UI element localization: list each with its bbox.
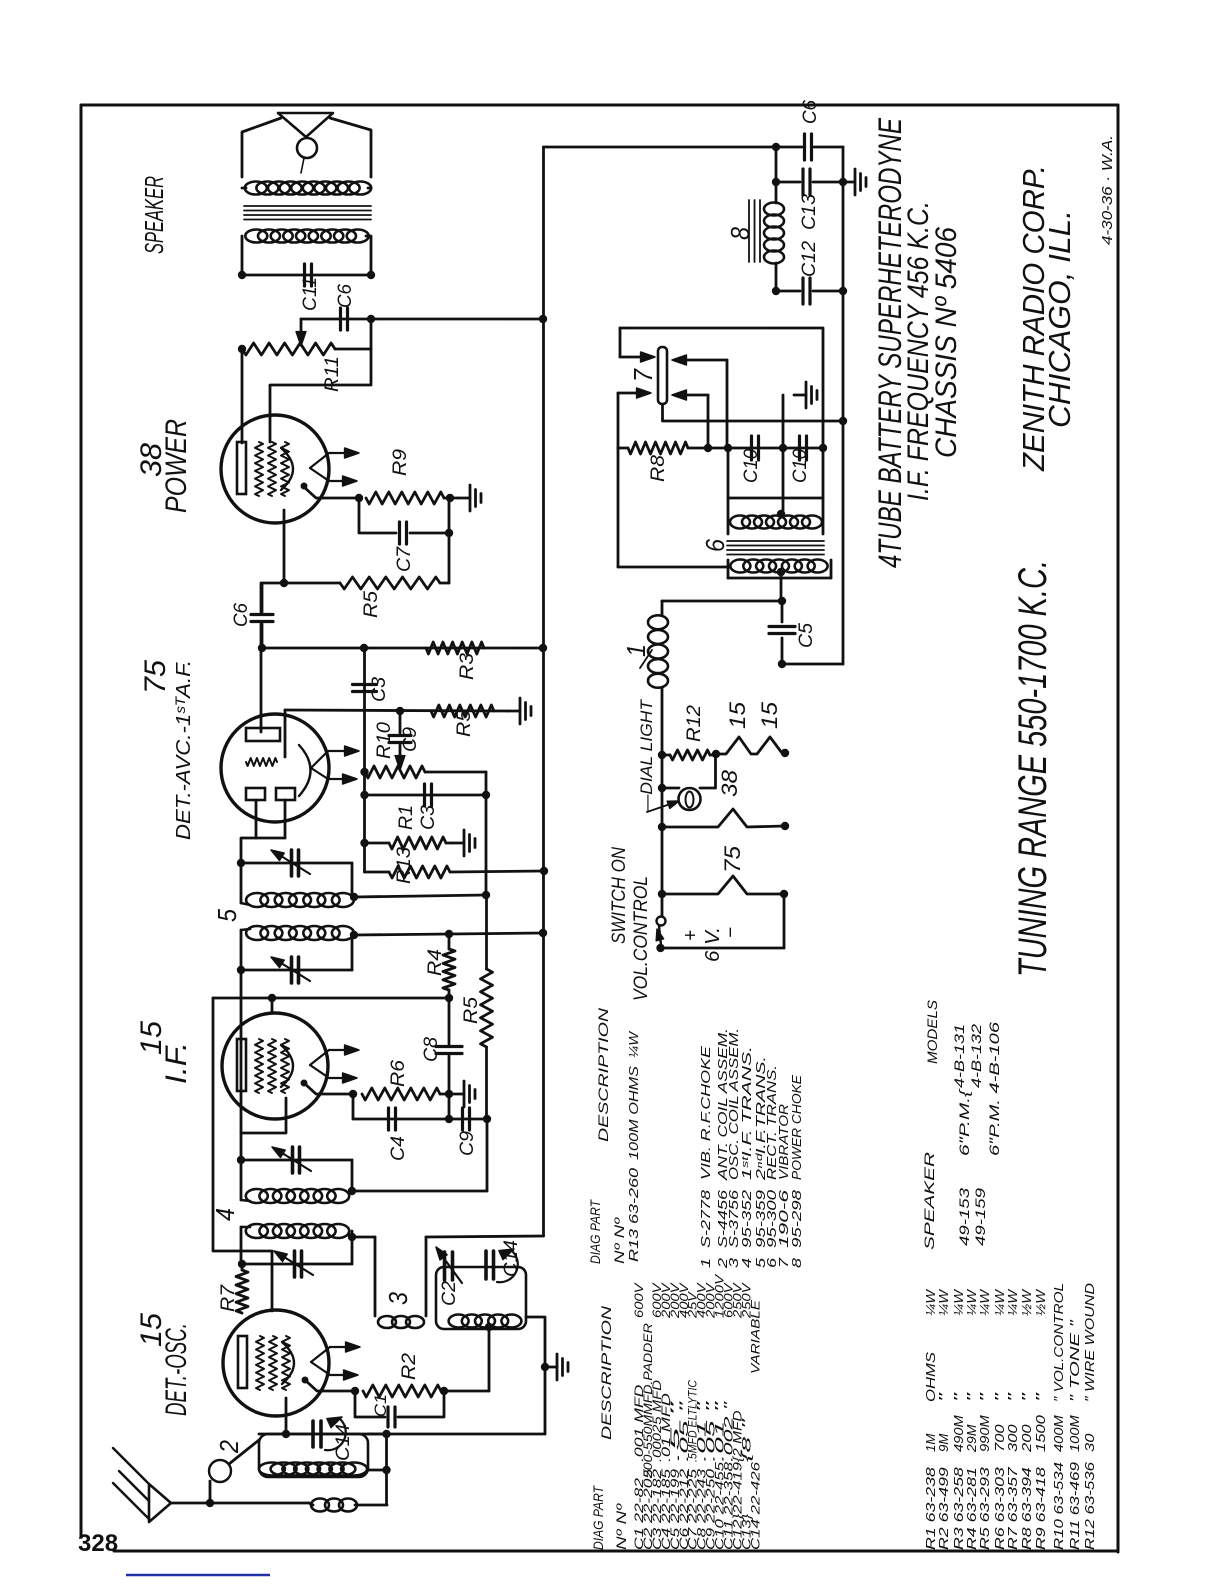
svg-text:C3: C3 <box>418 805 439 830</box>
capacitor C3 detector <box>365 794 487 797</box>
svg-text:7: 7 <box>628 368 658 382</box>
svg-text:C8: C8 <box>421 1037 442 1062</box>
antenna coil primary small <box>311 1499 329 1512</box>
wire speaker cone to transformer <box>330 118 371 177</box>
svg-text:990M: 990M <box>977 1415 992 1452</box>
svg-text:R7 63-357: R7 63-357 <box>1005 1466 1020 1550</box>
svg-text:SPEAKER: SPEAKER <box>139 176 169 254</box>
buffer capacitor row C10 C10 <box>708 447 823 450</box>
speaker transformer primary coil <box>245 230 267 243</box>
capacitor C13 <box>775 147 778 182</box>
vibrator contact wires right <box>679 359 727 362</box>
resistor R1 <box>389 837 446 849</box>
avc line down left side <box>213 998 272 1311</box>
capacitor C11 <box>242 274 371 277</box>
resistor R2 <box>363 1385 441 1397</box>
svg-text:−: − <box>720 927 742 938</box>
capacitor C8 <box>436 1045 462 1048</box>
capacitor C3 coupling <box>353 683 377 686</box>
svg-text:R8 63-394: R8 63-394 <box>1019 1467 1034 1550</box>
speaker transformer core <box>244 205 371 207</box>
svg-text:+: + <box>680 930 702 941</box>
svg-text:CHICAGO, ILL.: CHICAGO, ILL. <box>1042 210 1077 428</box>
svg-text:38: 38 <box>717 769 742 797</box>
svg-text:2: 2 <box>214 1440 244 1454</box>
svg-text:″ VOL.CONTROL: ″ VOL.CONTROL <box>1051 1283 1066 1402</box>
potentiometer R11 tone control <box>300 319 303 337</box>
capacitor C6 screen bypass <box>262 583 284 612</box>
svg-text:″: ″ <box>1033 1392 1048 1402</box>
svg-text:3: 3 <box>383 1292 413 1305</box>
wire 75 diode pins to transformer 5 <box>241 800 256 863</box>
svg-text:DET.-OSC.: DET.-OSC. <box>160 1323 193 1416</box>
svg-text:R2: R2 <box>399 1353 420 1380</box>
svg-text:R8: R8 <box>648 455 669 482</box>
speaker transformer secondary coil <box>245 182 267 195</box>
svg-text:C4: C4 <box>388 1136 409 1161</box>
IF transformer 4 secondary <box>246 1189 268 1203</box>
filament 15 15 <box>716 737 785 754</box>
svg-text:R5 63-293: R5 63-293 <box>977 1466 992 1550</box>
potentiometer R10 volume control <box>365 766 425 778</box>
IF transformer 4 tuned cap top <box>241 1159 352 1162</box>
svg-text:C14: C14 <box>333 1424 354 1461</box>
wire plate of 75 up through C6 node <box>260 583 263 612</box>
svg-text:″ WIRE WOUND: ″ WIRE WOUND <box>1082 1283 1097 1402</box>
svg-text:6″P.M. 4-B-106: 6″P.M. 4-B-106 <box>987 1021 1002 1156</box>
svg-text:POWER CHOKE: POWER CHOKE <box>789 1075 804 1180</box>
ground vibrator <box>794 394 806 397</box>
svg-text:R11: R11 <box>322 356 343 392</box>
border frame right edge <box>1117 105 1120 1552</box>
capacitor C6 top filter <box>803 134 806 160</box>
svg-text:100M OHMS: 100M OHMS <box>626 1066 641 1160</box>
svg-text:DESCRIPTION: DESCRIPTION <box>598 1305 614 1440</box>
svg-text:R4: R4 <box>425 949 446 976</box>
IF transformer 5 tuned cap top <box>241 862 352 865</box>
svg-text:—DIAL LIGHT: —DIAL LIGHT <box>637 698 656 813</box>
svg-text:MODELS: MODELS <box>924 999 940 1064</box>
oscillator coil <box>449 1315 469 1328</box>
transformer 6 rectifier <box>727 448 730 534</box>
svg-text:8: 8 <box>725 227 755 240</box>
tube V2 75 det-avc <box>221 714 329 822</box>
wire to transformer 4 secondary <box>486 1119 489 1191</box>
svg-text:49-153: 49-153 <box>957 1187 972 1246</box>
svg-text:C9: C9 <box>457 1131 478 1156</box>
wire rail top horizontal <box>544 146 803 149</box>
resistor R5 screen <box>481 969 493 1047</box>
ground at R9 <box>458 497 470 500</box>
svg-text:95-298: 95-298 <box>789 1189 804 1248</box>
svg-text:15: 15 <box>757 701 782 729</box>
tube V1 38 power <box>221 415 329 523</box>
svg-text:R5: R5 <box>461 997 482 1024</box>
capacitor C1 <box>355 1391 385 1417</box>
svg-text:VARIABLE: VARIABLE <box>748 1299 762 1374</box>
svg-text:Nº Nº: Nº Nº <box>613 1503 629 1550</box>
border frame bottom edge <box>114 1550 1118 1553</box>
svg-text:C13: C13 <box>799 194 820 230</box>
wire osc coil right to ground rail <box>526 1317 545 1434</box>
svg-text:R10 63-534: R10 63-534 <box>1051 1462 1066 1550</box>
wire screen lead inside tube <box>241 1098 286 1133</box>
tube V3 15 IF amplifier <box>222 1013 328 1119</box>
IF transformer 5 secondary <box>240 863 243 903</box>
border frame top edge <box>81 104 1118 107</box>
trimmer C2 <box>443 1252 447 1280</box>
wire cathode to R9 <box>304 487 359 498</box>
power switch <box>657 917 666 926</box>
antenna pigtail loop <box>209 1481 212 1503</box>
wire x242 rail to tube 38 plate <box>241 349 244 443</box>
svg-text:C5: C5 <box>796 623 817 648</box>
svg-text:R1: R1 <box>396 805 417 830</box>
choke coil 1 <box>661 601 664 615</box>
dial lamp <box>662 787 679 790</box>
svg-text:¼W: ¼W <box>1005 1288 1020 1316</box>
svg-text:″: ″ <box>1005 1392 1020 1402</box>
wire battery box top <box>662 600 782 603</box>
choke coil 8 <box>775 182 778 203</box>
choke 8 core <box>748 200 750 262</box>
svg-text:VOL.CONTROL: VOL.CONTROL <box>631 876 652 1001</box>
wire avc buss down <box>485 772 488 795</box>
IF transformer 4 primary <box>246 1224 268 1238</box>
capacitor C9 <box>399 711 402 733</box>
svg-text:POWER: POWER <box>160 419 193 513</box>
battery 6V wire <box>661 947 785 950</box>
svg-text:CHASSIS Nº 5406: CHASSIS Nº 5406 <box>930 227 963 458</box>
wire cathode 15IF to R6 <box>304 1083 353 1094</box>
antenna symbol <box>149 1484 171 1522</box>
svg-text:15: 15 <box>725 701 750 729</box>
wire transformer 6 primary left <box>618 566 728 569</box>
svg-text:C14 22-426: C14 22-426 <box>748 1462 762 1550</box>
svg-text:R3: R3 <box>457 653 478 680</box>
svg-text:6: 6 <box>700 539 730 552</box>
wire long B+ rail vertical <box>542 147 545 1236</box>
svg-text:R9 63-418: R9 63-418 <box>1033 1466 1048 1550</box>
svg-text:C14: C14 <box>501 1240 522 1277</box>
capacitor C4 line <box>352 1094 355 1119</box>
svg-text:R9: R9 <box>390 449 411 476</box>
wire grid of 75 to AVC line <box>284 710 287 757</box>
ground at R1 <box>452 842 464 845</box>
resistor R7 <box>236 1270 248 1313</box>
svg-text:328: 328 <box>78 1530 118 1557</box>
svg-text:30: 30 <box>1082 1433 1097 1452</box>
svg-text:600V: 600V <box>632 1281 646 1318</box>
screen feed rail y998 <box>213 997 449 1000</box>
svg-text:R7: R7 <box>218 1283 239 1312</box>
svg-text:R12: R12 <box>684 705 705 742</box>
svg-text:C6: C6 <box>800 100 821 124</box>
svg-text:R5: R5 <box>454 710 475 737</box>
antenna lead wire <box>171 1502 309 1505</box>
border frame left edge <box>80 106 83 1537</box>
wire grid cap 15 IF <box>271 998 274 1013</box>
resistor R8 <box>617 393 620 567</box>
filament 38 <box>662 809 785 827</box>
svg-text:C10: C10 <box>790 449 811 483</box>
svg-text:R11 63-469: R11 63-469 <box>1067 1462 1082 1550</box>
svg-text:″ TONE ″: ″ TONE ″ <box>1067 1319 1082 1402</box>
svg-text:I.F.: I.F. <box>160 1042 193 1084</box>
svg-text:¼W: ¼W <box>977 1288 992 1316</box>
IF transformer 5 primary <box>246 926 268 940</box>
svg-text:C12: C12 <box>799 241 820 277</box>
svg-text:5: 5 <box>212 909 242 922</box>
vibrator 7 assembly <box>620 327 822 330</box>
svg-text:R13 63-260: R13 63-260 <box>626 1167 641 1262</box>
wire tube38 screen down <box>283 510 286 583</box>
capacitor C6 output <box>301 318 371 321</box>
svg-text:TUNING RANGE 550-1700 K.C.: TUNING RANGE 550-1700 K.C. <box>1011 560 1055 977</box>
svg-text:4-B-131: 4-B-131 <box>952 1024 967 1088</box>
svg-text:C11: C11 <box>300 277 321 311</box>
wire trans5 primary to rail <box>354 933 543 935</box>
resistor R13 <box>389 866 450 878</box>
svg-text:DIAG PART: DIAG PART <box>587 1199 603 1264</box>
wire C6 to B+ rail <box>371 318 543 321</box>
svg-text:R12 63-536: R12 63-536 <box>1082 1461 1097 1550</box>
svg-text:C6: C6 <box>335 284 356 308</box>
svg-text:4-30-36 · W.A.: 4-30-36 · W.A. <box>1099 135 1116 245</box>
svg-text:R6: R6 <box>388 1060 409 1087</box>
capacitor C7 bypass <box>359 498 396 533</box>
capacitor C12 <box>776 290 800 293</box>
svg-text:¼W: ¼W <box>936 1288 951 1316</box>
svg-text:Nº Nº: Nº Nº <box>611 1217 627 1264</box>
svg-text:DESCRIPTION: DESCRIPTION <box>595 1007 611 1142</box>
wire antenna bus <box>368 1433 386 1436</box>
IF transformer 5 tuned cap bottom <box>241 969 352 972</box>
resistor R6 <box>362 1088 440 1100</box>
svg-text:½W: ½W <box>1019 1288 1034 1316</box>
svg-text:400M: 400M <box>1051 1415 1066 1452</box>
svg-text:C10: C10 <box>741 449 762 483</box>
resistor R5 plate feed <box>448 533 451 583</box>
svg-text:SWITCH ON: SWITCH ON <box>609 847 630 944</box>
wire det-osc bottom pin to padder node <box>285 1398 288 1434</box>
resistor R9 <box>366 492 444 504</box>
svg-text:R2 63-499: R2 63-499 <box>936 1467 951 1550</box>
ground det-osc <box>545 1366 557 1369</box>
svg-text:200: 200 <box>1019 1423 1034 1453</box>
svg-text:C1: C1 <box>371 1394 390 1417</box>
svg-text:4: 4 <box>739 1258 754 1268</box>
wire plate 15IF vertical <box>240 970 243 1160</box>
wire tube38 grid from C6 node <box>270 319 371 442</box>
wire transformer 6 secondary tap down <box>780 572 783 601</box>
svg-text:VIB. R.F.CHOKE: VIB. R.F.CHOKE <box>698 1046 713 1180</box>
tube V4 15 det-osc <box>223 1310 329 1416</box>
svg-text:C6: C6 <box>231 603 252 627</box>
svg-text:SPEAKER: SPEAKER <box>921 1152 937 1250</box>
svg-text:″: ″ <box>1019 1392 1034 1402</box>
wire right filter bus <box>842 147 845 421</box>
svg-text:C2: C2 <box>439 1281 460 1306</box>
antenna padder line C14 <box>259 1433 545 1436</box>
capacitor C5 <box>781 601 784 622</box>
wire trans5 secondary to R10 node <box>354 895 486 897</box>
svg-text:95-352: 95-352 <box>739 1189 754 1248</box>
vibrator reed to buffer <box>663 404 844 421</box>
wire cathode det-osc to R2 <box>305 1380 355 1391</box>
svg-text:S-2778: S-2778 <box>698 1189 713 1248</box>
node C11 junctions <box>238 271 246 279</box>
resistor R3 on rail <box>426 642 484 654</box>
svg-text:9M: 9M <box>936 1433 951 1452</box>
svg-text:75: 75 <box>720 845 745 873</box>
svg-text:″: ″ <box>936 1392 951 1402</box>
svg-text:R10: R10 <box>374 722 395 759</box>
wire osc coil tap to R2 <box>488 1327 491 1391</box>
blue pen mark <box>126 1574 270 1577</box>
svg-text:6″P.M.{: 6″P.M.{ <box>957 1088 972 1156</box>
svg-text:75: 75 <box>139 660 172 694</box>
filament 75 <box>662 876 784 894</box>
ground at R6 <box>452 1093 464 1096</box>
B+ distribution rail <box>262 647 543 650</box>
resistor R4 <box>443 949 455 990</box>
antenna coil assembly box <box>259 1434 368 1477</box>
svg-text:¼W: ¼W <box>626 1030 641 1058</box>
svg-text:R13: R13 <box>394 847 415 884</box>
svg-text:1: 1 <box>621 644 651 657</box>
antenna coil secondary <box>259 1463 285 1476</box>
speaker cone <box>278 113 333 137</box>
svg-text:C9: C9 <box>400 727 421 752</box>
svg-text:″: ″ <box>977 1392 992 1402</box>
capacitor C9 second <box>461 1108 464 1130</box>
resistor R12 <box>670 750 710 760</box>
svg-text:C3: C3 <box>369 677 390 702</box>
svg-text:8: 8 <box>789 1257 804 1268</box>
wire C5 to buffer bus <box>782 663 843 666</box>
svg-text:DIAG PART: DIAG PART <box>590 1485 606 1550</box>
svg-text:1500: 1500 <box>1033 1414 1048 1452</box>
svg-text:C7: C7 <box>394 546 415 572</box>
svg-text:½W: ½W <box>1033 1288 1048 1316</box>
oscillator grid coil 3 loop <box>352 1236 375 1239</box>
resistor R5 avc <box>431 705 494 717</box>
IF transformer 4 tuned cap bottom <box>241 1263 352 1266</box>
svg-text:4: 4 <box>210 1208 240 1221</box>
svg-text:DET.-AVC.-1ˢᵀA.F.: DET.-AVC.-1ˢᵀA.F. <box>173 660 195 840</box>
svg-text:1ˢᵗI.F. TRANS.: 1ˢᵗI.F. TRANS. <box>739 1046 754 1180</box>
svg-text:1: 1 <box>698 1258 713 1268</box>
vertical from rail y648 to R13 node <box>363 648 366 872</box>
svg-text:R5: R5 <box>361 591 382 618</box>
svg-text:300: 300 <box>1005 1423 1020 1452</box>
padder capacitor C14 <box>311 1421 315 1447</box>
oscillator tank box C2 C14 <box>436 1267 526 1329</box>
ground top right <box>843 181 855 184</box>
svg-text:49-159: 49-159 <box>973 1187 988 1246</box>
trimmer C14 oscillator <box>484 1251 488 1279</box>
svg-text:100M: 100M <box>1067 1415 1082 1452</box>
svg-text:4-B-132: 4-B-132 <box>969 1023 984 1088</box>
svg-text:{8 ″: {8 ″ <box>739 1417 753 1462</box>
